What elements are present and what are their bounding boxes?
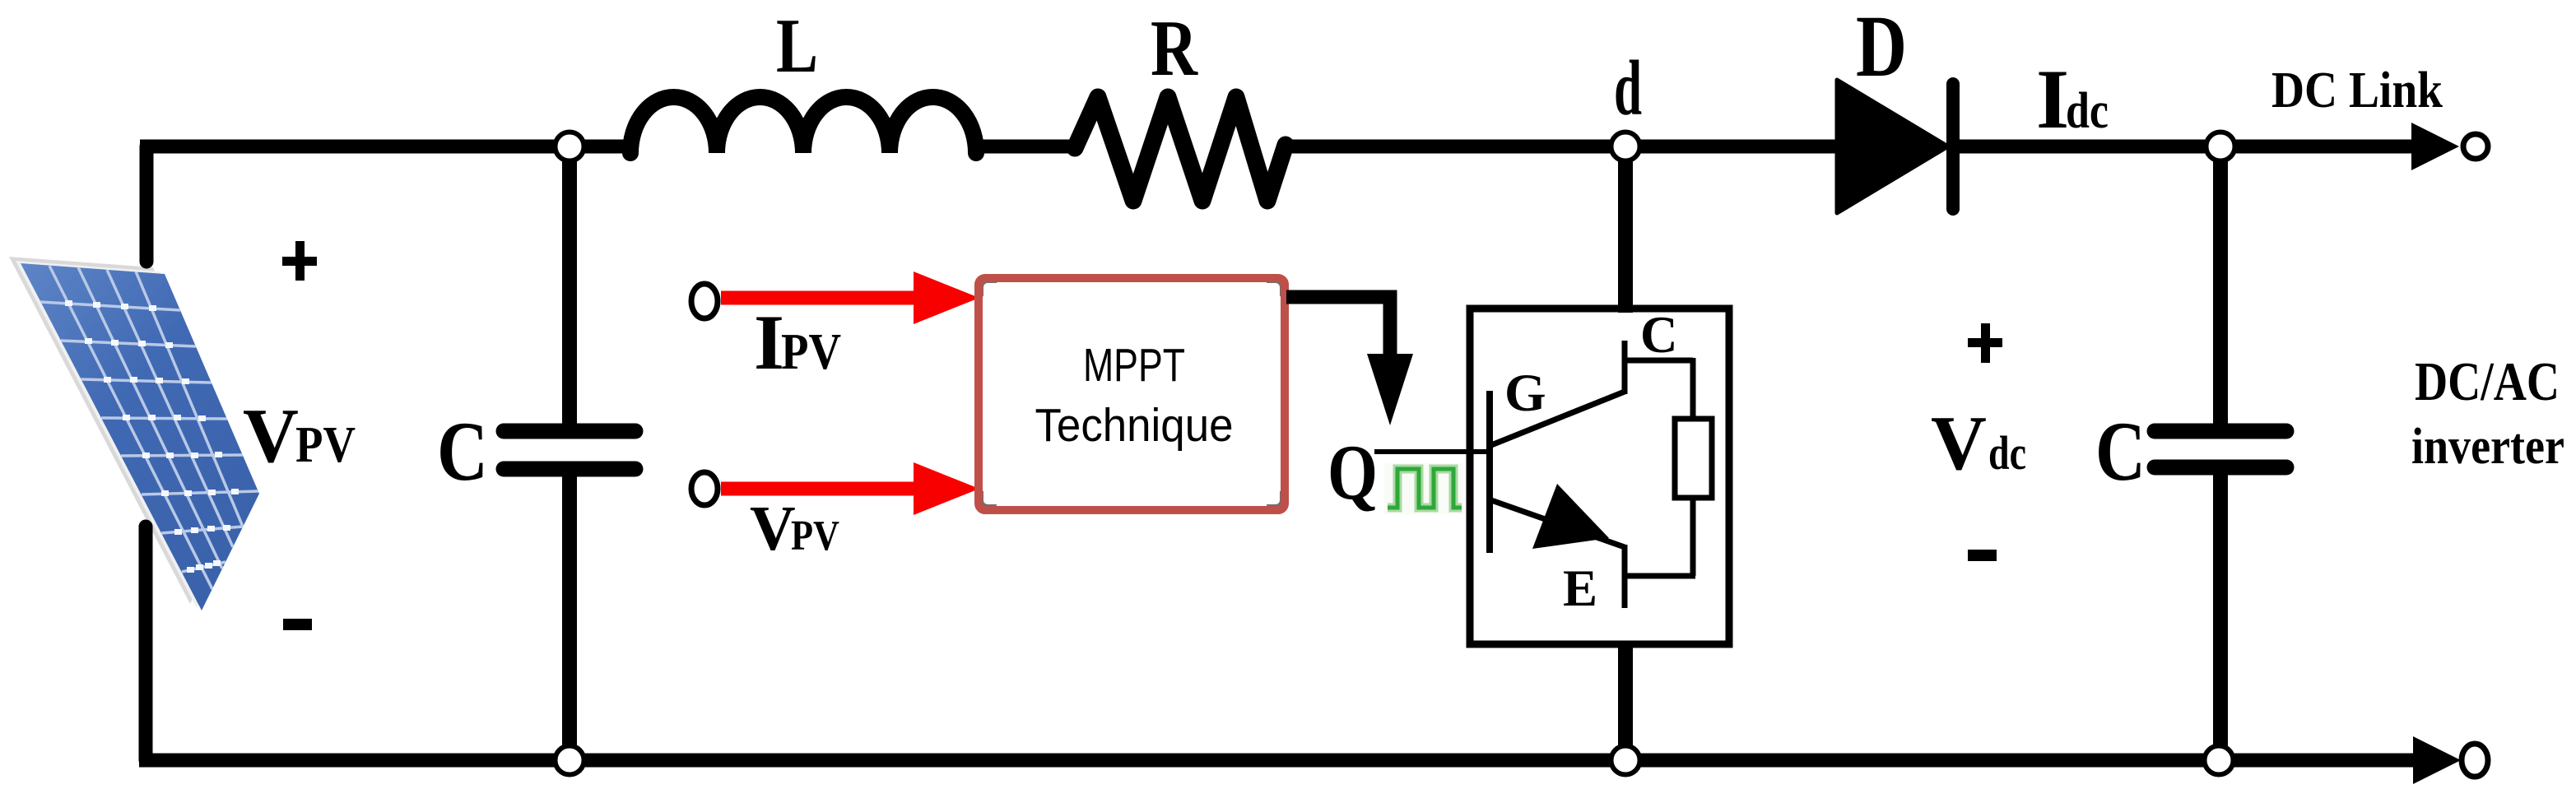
wire: Q to IGBT gate: [1374, 449, 1490, 454]
node: bottom of input capacitor: [556, 746, 584, 775]
svg-text:PV: PV: [295, 417, 356, 473]
label + (PV side): [282, 241, 317, 281]
input terminal circle (Ipv): [691, 284, 718, 318]
node: top of output capacitor: [2206, 132, 2235, 161]
MPPT block: [985, 285, 1278, 503]
red arrow Ipv: [721, 272, 979, 324]
svg-text:PV: PV: [781, 324, 841, 380]
IGBT emitter arrow: [1532, 484, 1609, 549]
label VPV (input): [750, 493, 839, 564]
svg-text:C: C: [2095, 405, 2146, 499]
bottom right terminal circle: [2462, 744, 2488, 777]
wire: MPPT output elbow: [1286, 297, 1390, 357]
IGBT resistor top lead: [1690, 358, 1696, 421]
node: bottom of output capacitor: [2205, 746, 2234, 775]
label - (Vdc): [1968, 550, 1997, 561]
label IPV: [754, 299, 841, 386]
inductor L: [630, 97, 976, 153]
svg-text:R: R: [1151, 4, 1198, 92]
svg-text:D: D: [1856, 0, 1907, 95]
svg-text:inverter: inverter: [2411, 419, 2564, 475]
svg-text:DC/AC: DC/AC: [2415, 351, 2560, 412]
input terminal circle (Vpv): [691, 472, 718, 505]
IGBT emitter to resistor: [1625, 573, 1695, 579]
label Vdc: [1931, 401, 2026, 486]
red arrow Vpv: [721, 462, 979, 515]
gate pulse waveform: [1384, 463, 1463, 514]
label VPV (PV side): [243, 393, 356, 479]
capacitor C1 plates: [504, 424, 635, 439]
svg-text:L: L: [776, 3, 818, 89]
arrow down to IGBT gate: [1367, 354, 1413, 425]
wire: top rail left segment: [140, 140, 630, 154]
svg-text:I: I: [754, 299, 784, 386]
IGBT box: [1470, 309, 1729, 644]
svg-text:Technique: Technique: [1035, 399, 1234, 452]
label + (Vdc): [1968, 323, 2002, 363]
IGBT gate-emitter diagonal: [1491, 500, 1625, 547]
label DC/AC inverter: [2411, 351, 2564, 475]
svg-text:DC Link: DC Link: [2271, 63, 2443, 118]
svg-text:V: V: [750, 493, 796, 564]
svg-text:dc: dc: [2066, 83, 2109, 139]
IGBT collector lead: [1622, 341, 1628, 394]
svg-text:PV: PV: [791, 513, 839, 559]
wire: IGBT emitter to bottom rail: [1618, 641, 1633, 760]
DC link output arrowhead: [2411, 123, 2459, 170]
svg-text:G: G: [1504, 364, 1546, 423]
svg-text:Q: Q: [1328, 429, 1378, 516]
svg-text:V: V: [1931, 401, 1987, 486]
wire: node d down to IGBT collector: [1618, 146, 1633, 313]
wire: PV negative terminal vertical: [139, 527, 153, 760]
svg-text:E: E: [1563, 559, 1597, 617]
svg-text:C: C: [1640, 306, 1678, 364]
wire: rail from R to diode anode: [1284, 140, 1839, 154]
svg-text:dc: dc: [1988, 426, 2026, 480]
IGBT gate bar: [1486, 391, 1493, 553]
label MPPT Technique: [1035, 339, 1234, 452]
node: top of input capacitor: [556, 132, 584, 161]
diode D: [1837, 80, 1953, 213]
svg-text:C: C: [437, 405, 488, 499]
capacitor C1 top lead: [562, 146, 577, 424]
wire: rail between L and R: [976, 140, 1076, 154]
IGBT internal resistor: [1675, 419, 1712, 498]
capacitor C1 bottom lead: [562, 476, 577, 760]
svg-text:V: V: [243, 393, 299, 479]
svg-text:I: I: [2036, 53, 2069, 146]
IGBT emitter lead: [1622, 545, 1628, 608]
capacitor C2 plates: [2155, 424, 2286, 439]
svg-text:MPPT: MPPT: [1083, 339, 1185, 392]
bottom rail output arrowhead: [2413, 736, 2461, 784]
wire: PV positive terminal vertical: [140, 146, 154, 262]
label - (PV side): [283, 619, 312, 630]
capacitor C2 top lead: [2213, 146, 2228, 425]
node: bottom of IGBT: [1611, 746, 1640, 775]
wire: rail from diode cathode to DC link: [1959, 140, 2420, 154]
IGBT gate-collector diagonal: [1491, 392, 1625, 445]
MPPT block corner handles: [976, 276, 1287, 512]
resistor R: [1075, 97, 1286, 201]
label Idc: [2036, 53, 2109, 146]
node d junction: [1611, 132, 1640, 161]
DC link terminal circle: [2463, 134, 2488, 159]
IGBT resistor bottom lead: [1690, 498, 1696, 576]
capacitor C2 bottom lead: [2213, 475, 2228, 760]
IGBT collector to resistor: [1622, 358, 1693, 364]
bottom rail wire: [139, 754, 2418, 768]
svg-text:d: d: [1614, 44, 1642, 132]
